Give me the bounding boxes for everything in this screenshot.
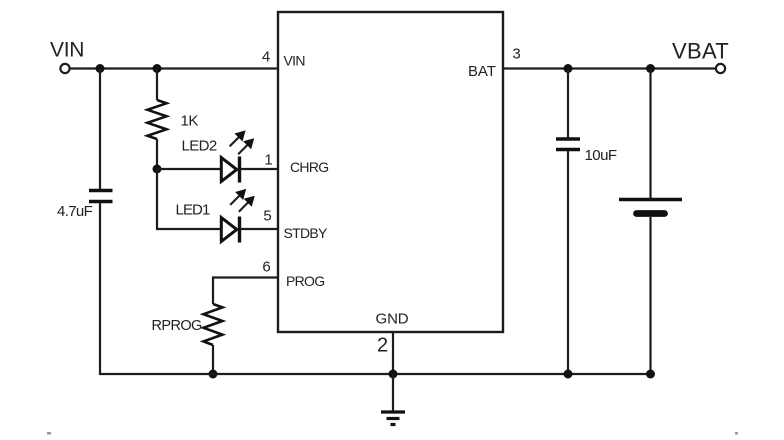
wire BAT pin 3 to VBAT terminal [503,67,716,69]
ground [381,412,405,425]
ground rail [100,373,651,375]
junction VIN / C1 [96,64,105,73]
wire PROG pin 6 to RPROG [213,278,278,305]
svg-text:BAT: BAT [468,63,496,80]
svg-text:STDBY: STDBY [284,225,329,241]
wire C2 top lead [567,69,569,138]
IC U1 body [278,12,503,332]
svg-text:LED2: LED2 [182,138,217,155]
wire rail to ground symbol [392,374,394,411]
wire LED2 cathode to CHRG pin 1 [240,168,278,170]
svg-text:3: 3 [512,46,520,63]
pin 3 BAT [468,46,521,81]
wire battery bottom lead to rail [649,217,651,374]
wire C1 top lead [99,69,101,190]
resistor R1 1K [148,69,199,170]
pin 6 PROG [262,259,324,290]
junction GND / rail [389,370,398,379]
wire battery top lead [649,69,651,199]
wire GND pin 2 to rail [392,332,394,374]
svg-text:VBAT: VBAT [672,39,729,64]
wire branch to LED1 anode [157,169,221,229]
wire LED1 cathode to STDBY pin 5 [240,228,278,230]
wire LED2 anode [157,168,221,170]
stray speck bottom right [735,432,738,435]
svg-text:10uF: 10uF [585,147,617,164]
wire C2 bottom lead to rail [567,151,569,374]
svg-text:LED1: LED1 [176,202,210,219]
wire VIN terminal to pin 4 [70,67,278,69]
svg-text:1K: 1K [181,113,199,130]
junction BAT / C2 [564,64,573,73]
junction R1 / LED2 anode [153,165,162,174]
wire RPROG bottom to ground rail [212,345,214,374]
LED LED1 [176,189,255,243]
resistor RPROG [152,304,223,345]
pin 4 VIN [262,49,305,69]
svg-text:RPROG: RPROG [152,318,202,334]
junction RPROG / rail [209,370,218,379]
svg-text:4.7uF: 4.7uF [57,203,93,220]
pin 5 STDBY [263,208,328,242]
junction VIN / R1 [153,64,162,73]
svg-text:6: 6 [262,259,270,276]
junction C2 / rail [564,370,573,379]
node VBAT [672,39,729,74]
svg-text:VIN: VIN [50,39,84,62]
svg-text:CHRG: CHRG [290,159,328,175]
wire C1 bottom lead to ground rail [99,203,101,375]
svg-text:PROG: PROG [286,273,324,289]
node VIN [50,39,84,74]
stray speck bottom left [47,432,51,435]
svg-text:GND: GND [376,311,409,328]
pin 1 CHRG [264,152,328,176]
svg-text:4: 4 [262,49,270,66]
pin 2 GND [376,311,409,357]
svg-text:1: 1 [264,152,272,169]
battery BT1 [619,200,682,214]
LED LED2 [182,130,255,182]
svg-text:VIN: VIN [284,53,305,69]
svg-text:2: 2 [377,335,388,357]
svg-text:5: 5 [263,208,271,225]
capacitor C1 4.7uF [57,191,113,221]
junction BAT / battery [646,64,655,73]
junction battery / rail [646,370,655,379]
capacitor C2 10uF [556,139,617,164]
